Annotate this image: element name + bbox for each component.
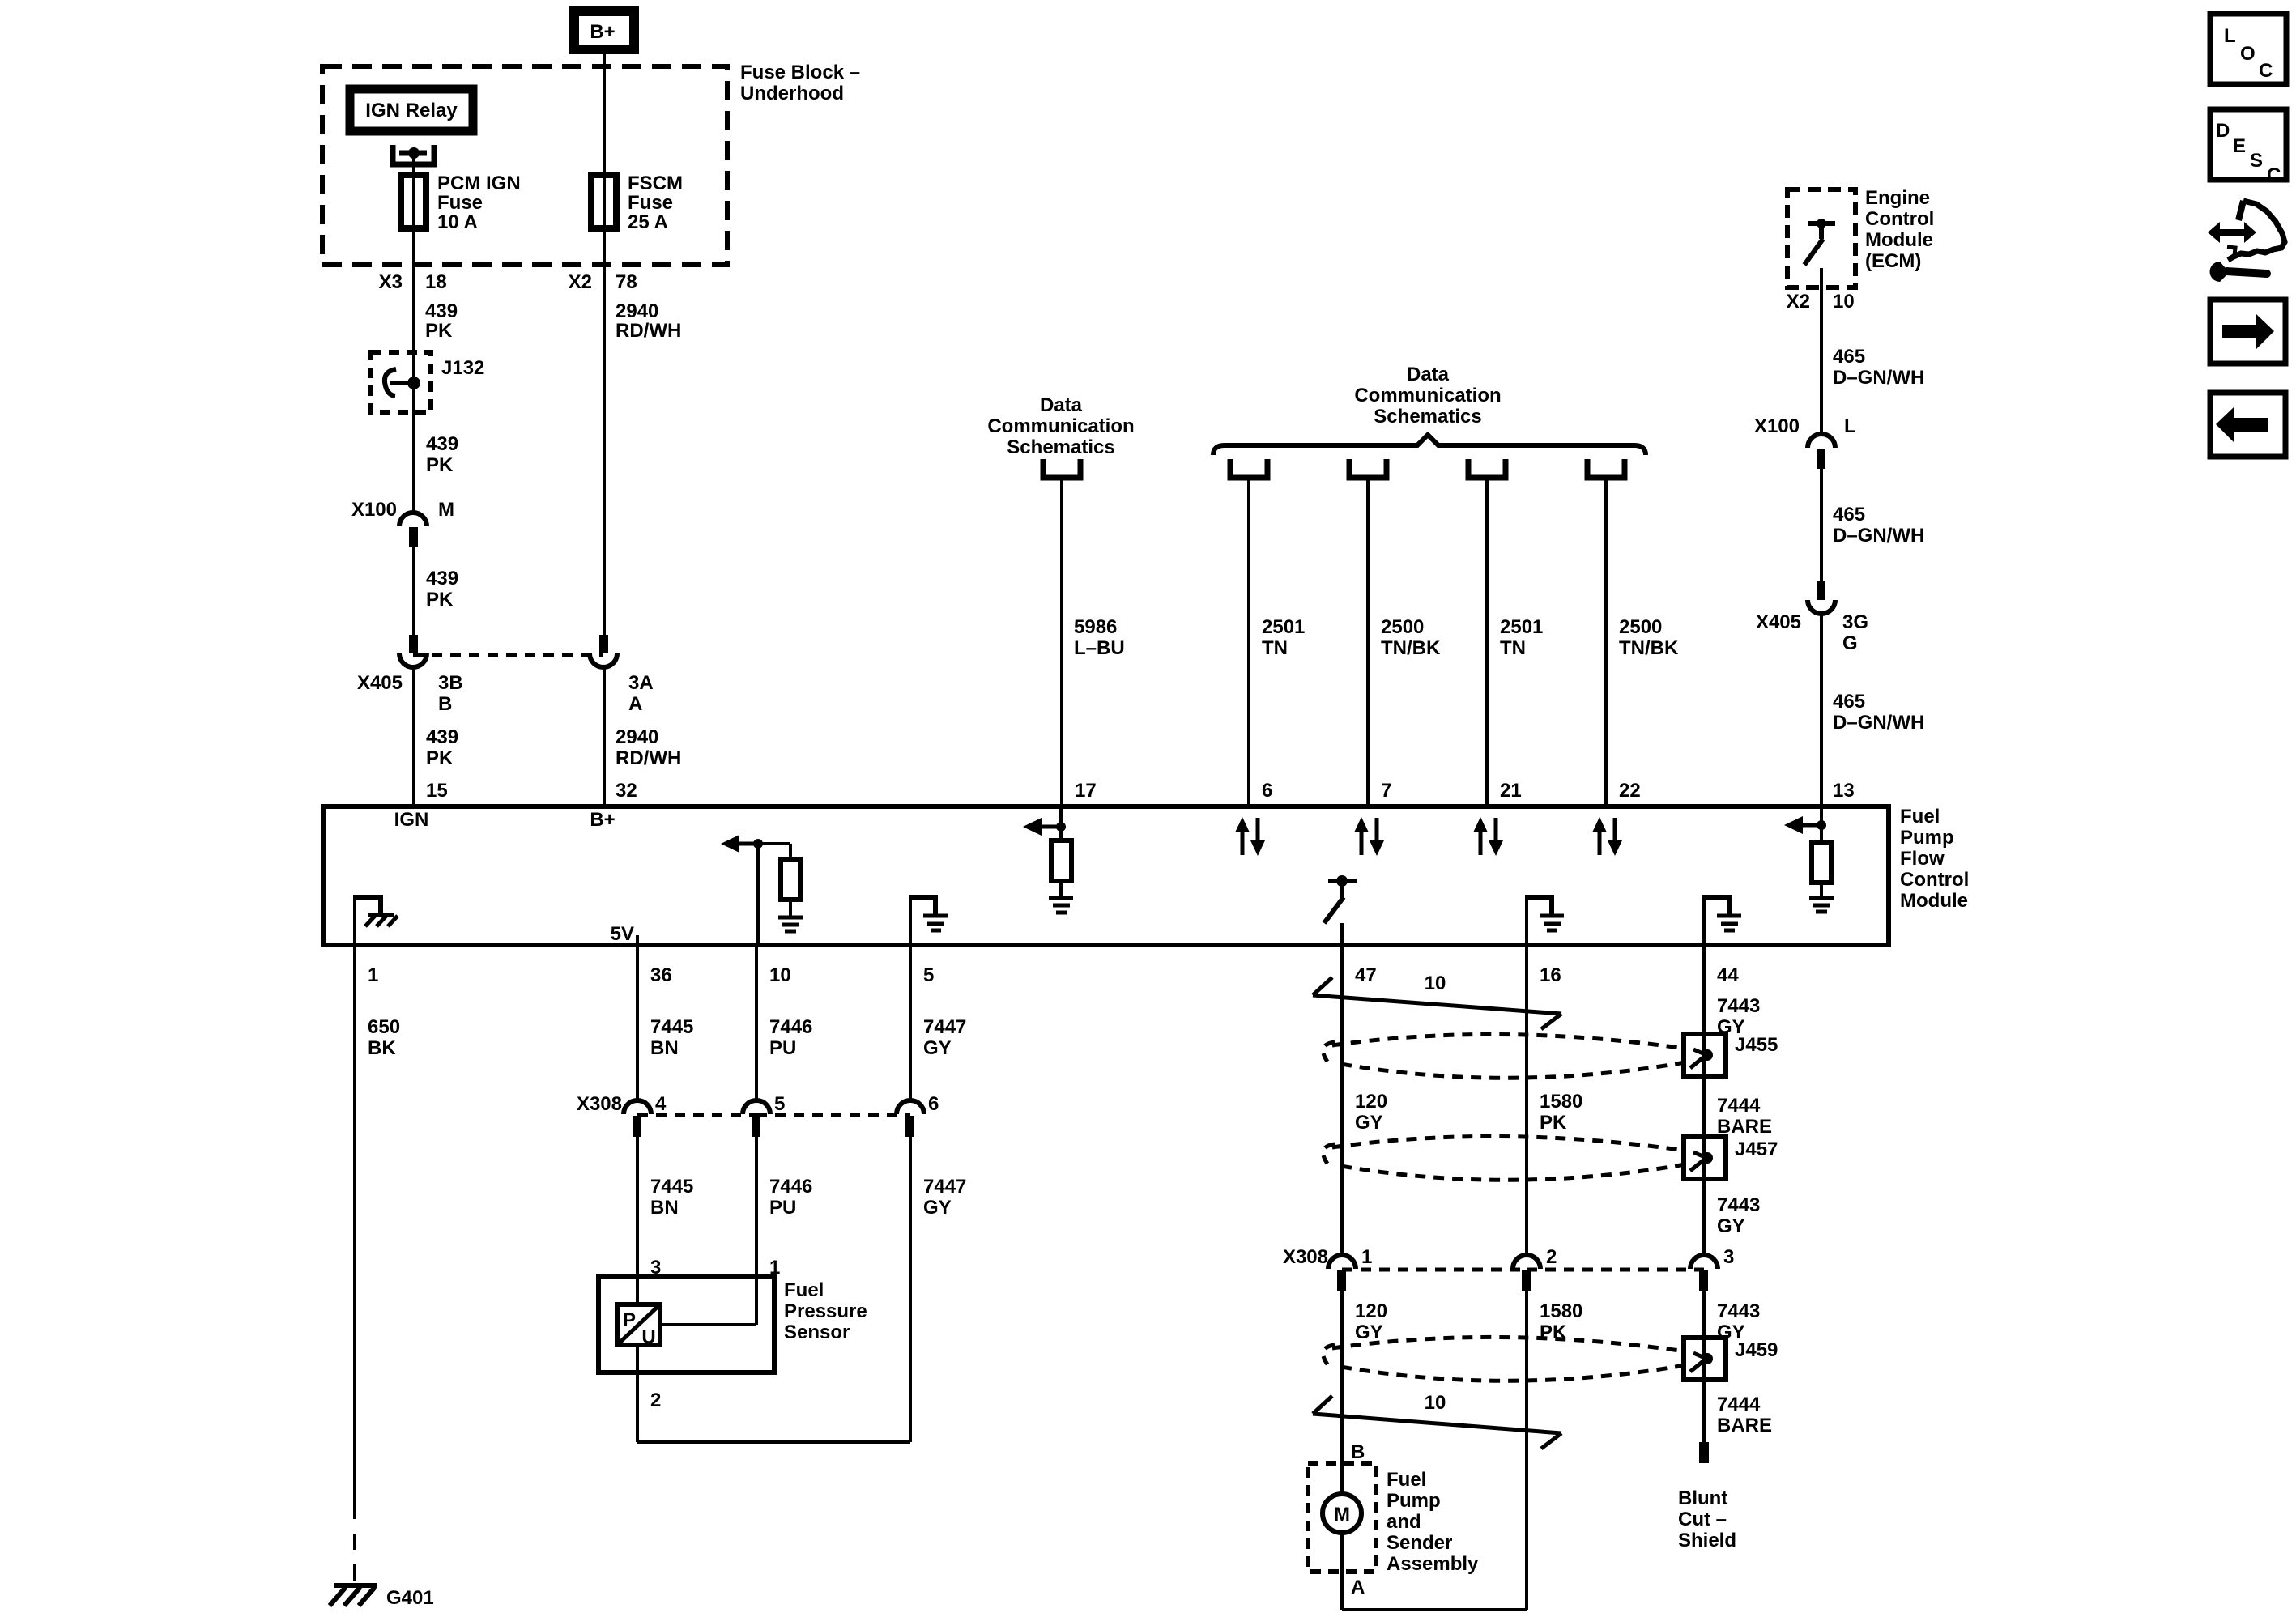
dashed jumper X308 4-5 (637, 1113, 756, 1117)
fuse PCM IGN 10A (401, 172, 521, 233)
dashed jumper X308 5-6 (756, 1113, 910, 1117)
svg-text:Fuse: Fuse (437, 192, 483, 214)
wire label 7443 GY (B) (1717, 1194, 1760, 1237)
wire label 5986 L-BU (1074, 616, 1125, 659)
label Data Communication Schematics (right) (1354, 364, 1501, 428)
wire label 7445 BN (1) (650, 1016, 693, 1059)
wire label 7447 GY (1) (923, 1016, 966, 1059)
brace over data wires (1213, 435, 1646, 455)
svg-text:Fuse: Fuse (628, 192, 673, 214)
wire label 2501 TN (1262, 616, 1305, 659)
svg-text:J132: J132 (441, 357, 484, 379)
chassis ground pin 1 internal (353, 895, 398, 945)
wire pin 10 to X308 (755, 945, 758, 1100)
wire X405 to pin 13 (1820, 614, 1823, 806)
svg-text:1580: 1580 (1540, 1091, 1582, 1113)
svg-text:BARE: BARE (1717, 1116, 1772, 1138)
svg-text:7445: 7445 (650, 1016, 693, 1038)
svg-text:7445: 7445 (650, 1176, 693, 1198)
wire serial data to pin 7 (1366, 478, 1370, 806)
module Fuel Pump Flow Control Module box (323, 806, 1889, 945)
svg-text:3: 3 (1723, 1246, 1734, 1268)
shield loop 2 (1323, 1136, 1685, 1180)
off-page connector symbol (pin 7 net) (1349, 459, 1387, 478)
svg-text:Flow: Flow (1900, 848, 1945, 870)
svg-text:IGN Relay: IGN Relay (365, 100, 458, 121)
wire label 2940 RD/WH (1) (616, 300, 681, 342)
node pin 10 junction with arrow (721, 835, 763, 853)
svg-text:465: 465 (1833, 691, 1865, 713)
ground pin 44 internal (1702, 895, 1741, 945)
svg-text:10: 10 (1425, 972, 1446, 994)
pin label X3 18 (379, 271, 447, 293)
svg-text:Data: Data (1040, 394, 1083, 416)
wire label 7443 GY (A) (1717, 995, 1760, 1038)
svg-text:Cut –: Cut – (1678, 1508, 1727, 1530)
svg-text:BN: BN (650, 1037, 679, 1059)
svg-text:GY: GY (1717, 1215, 1745, 1237)
wire serial data to pin 21 (1485, 478, 1489, 806)
transducer P/U element (617, 1304, 660, 1348)
svg-text:O: O (2240, 43, 2256, 65)
wire pin44 to J459 (1702, 1291, 1706, 1380)
svg-text:3G: 3G (1842, 611, 1868, 633)
svg-text:X3: X3 (379, 271, 403, 293)
splice J455 (1684, 1034, 1778, 1076)
label Fuel Pump and Sender Assembly (1387, 1469, 1479, 1575)
label Engine Control Module (ECM) (1865, 187, 1934, 272)
svg-text:X405: X405 (1756, 611, 1801, 633)
svg-text:Control: Control (1900, 869, 1969, 891)
svg-text:44: 44 (1717, 964, 1739, 986)
svg-text:650: 650 (368, 1016, 400, 1038)
wire label 1580 PK (1) (1540, 1091, 1582, 1134)
wire X308-1 to fuel pump B (1340, 1291, 1344, 1494)
node pin 17 junction with arrow (1023, 818, 1066, 836)
wire label 439 PK (1) (425, 300, 458, 342)
off-page connector symbol (pin 6 net) (1230, 459, 1267, 478)
svg-text:E: E (2233, 135, 2246, 157)
svg-text:PK: PK (426, 454, 454, 476)
connector X100 L (right) (1754, 415, 1856, 469)
svg-text:C: C (2259, 60, 2273, 82)
svg-text:7446: 7446 (769, 1016, 812, 1038)
wire X100 to X405 (right) (1820, 469, 1823, 581)
wire sensor pin 2 return (637, 1345, 910, 1442)
wire label 7444 BARE (2) (1717, 1394, 1772, 1436)
icon vehicle data arrows and wrench (2208, 201, 2285, 282)
pin label X2 10 (1787, 291, 1855, 313)
wire label 465 D-GN/WH (1) (1833, 346, 1924, 389)
svg-text:PK: PK (1540, 1112, 1567, 1134)
off-page connector symbol (pin 17 net) (1043, 459, 1080, 478)
svg-text:7443: 7443 (1717, 1300, 1760, 1322)
serial data bidirectional arrows pin 7 (1354, 817, 1384, 856)
wire pin 36 stub (636, 935, 639, 945)
off-page connector symbol (pin 22 net) (1587, 459, 1625, 478)
wire pin 16 to X308 (1525, 945, 1528, 1255)
svg-text:Communication: Communication (987, 415, 1134, 437)
wire relay to PCM IGN fuse and down to X100 (412, 153, 415, 512)
svg-text:X100: X100 (351, 499, 397, 521)
svg-text:PK: PK (426, 589, 454, 611)
wire X405 to pin 32 (603, 667, 606, 806)
svg-text:18: 18 (425, 271, 447, 293)
svg-text:2940: 2940 (616, 726, 658, 748)
svg-text:TN/BK: TN/BK (1381, 637, 1441, 659)
svg-text:439: 439 (426, 568, 458, 589)
icon LOC box (2210, 14, 2286, 84)
splice J457 (1684, 1137, 1778, 1179)
svg-text:10: 10 (769, 964, 791, 986)
svg-text:Data: Data (1407, 364, 1450, 385)
wire label 120 GY (2) (1355, 1300, 1387, 1343)
wire serial data to pin 22 (1604, 478, 1608, 806)
wire label 7445 BN (2) (650, 1176, 693, 1219)
svg-text:U: U (641, 1326, 655, 1348)
svg-text:Communication: Communication (1354, 385, 1501, 406)
svg-text:and: and (1387, 1511, 1421, 1533)
connector X308 pin 1 (1328, 1246, 1372, 1291)
svg-text:2501: 2501 (1262, 616, 1305, 638)
svg-text:1: 1 (1361, 1246, 1372, 1268)
svg-text:465: 465 (1833, 504, 1865, 526)
wire serial data to pin 6 (1247, 478, 1250, 806)
wire pin 36 to X308 (636, 945, 639, 1100)
svg-text:17: 17 (1075, 780, 1097, 802)
svg-text:S: S (2250, 150, 2263, 172)
svg-text:PK: PK (426, 747, 454, 769)
harness arrow 10 wires (top) (1313, 972, 1561, 1029)
wire label 465 D-GN/WH (2) (1833, 504, 1924, 547)
switch pin 47 internal (1324, 875, 1357, 945)
icon DESC box (2210, 109, 2286, 186)
svg-text:PK: PK (425, 320, 453, 342)
power node B+ (574, 11, 634, 49)
svg-text:2940: 2940 (616, 300, 658, 322)
svg-text:GY: GY (1355, 1321, 1383, 1343)
wire label 7444 BARE (1) (1717, 1095, 1772, 1138)
svg-text:IGN: IGN (394, 809, 429, 831)
svg-text:120: 120 (1355, 1300, 1387, 1322)
svg-text:GY: GY (923, 1037, 952, 1059)
icon forward arrow box (2210, 300, 2285, 364)
svg-text:Underhood: Underhood (740, 83, 844, 104)
svg-text:13: 13 (1833, 780, 1855, 802)
wire label 7446 PU (2) (769, 1176, 812, 1219)
svg-text:36: 36 (650, 964, 672, 986)
wire label 2940 RD/WH (2) (616, 726, 681, 769)
svg-text:BK: BK (368, 1037, 396, 1059)
wire X308-6 to sensor return (909, 1137, 912, 1442)
svg-text:7447: 7447 (923, 1176, 966, 1198)
svg-text:2500: 2500 (1619, 616, 1662, 638)
svg-text:D: D (2216, 120, 2230, 142)
svg-text:J459: J459 (1735, 1339, 1778, 1361)
connector X405 3G G (right) (1756, 581, 1868, 654)
label Fuel Pump Flow Control Module (1900, 806, 1969, 912)
svg-text:BARE: BARE (1717, 1415, 1772, 1436)
wire shield to blunt cut (1702, 1380, 1706, 1442)
svg-text:Engine: Engine (1865, 187, 1930, 209)
dashed jumper X308 1-2 (1342, 1268, 1527, 1272)
off-page connector symbol (pin 21 net) (1468, 459, 1506, 478)
wire label 1580 PK (2) (1540, 1300, 1582, 1343)
svg-text:D–GN/WH: D–GN/WH (1833, 712, 1924, 734)
svg-text:7: 7 (1381, 780, 1391, 802)
wire label 439 PK (4) (426, 726, 458, 769)
svg-text:X405: X405 (357, 672, 403, 694)
wire label 120 GY (1) (1355, 1091, 1387, 1134)
svg-text:GY: GY (1355, 1112, 1383, 1134)
label Data Communication Schematics (left) (987, 394, 1134, 458)
svg-text:P: P (623, 1309, 636, 1331)
svg-text:10: 10 (1425, 1392, 1446, 1414)
wire fuel pump A to pin 16 (1342, 1291, 1527, 1610)
svg-text:Control: Control (1865, 208, 1934, 230)
svg-text:G: G (1842, 632, 1858, 654)
svg-text:32: 32 (616, 780, 637, 802)
svg-text:B+: B+ (590, 809, 615, 831)
svg-text:3B: 3B (438, 672, 463, 694)
connector X308 pin 4 (624, 1093, 667, 1137)
connector X100 M (left) (351, 499, 454, 547)
serial data bidirectional arrows pin 6 (1235, 817, 1265, 856)
connector X405 3A A (right) (590, 635, 654, 715)
connector X308 pin 6 (897, 1093, 939, 1137)
svg-text:PCM IGN: PCM IGN (437, 172, 521, 194)
svg-text:15: 15 (426, 780, 448, 802)
svg-text:439: 439 (426, 726, 458, 748)
svg-text:Schematics: Schematics (1374, 406, 1481, 428)
resistor pin 17 termination (1051, 806, 1071, 898)
svg-text:Schematics: Schematics (1007, 436, 1114, 458)
splice J132 (371, 352, 484, 412)
svg-text:PU: PU (769, 1037, 796, 1059)
svg-text:Sender: Sender (1387, 1532, 1452, 1554)
connector X308 pin 2 (1513, 1246, 1557, 1291)
ground G401 (330, 1585, 434, 1609)
serial data bidirectional arrows pin 21 (1473, 817, 1503, 856)
dashed jumper X405 (413, 653, 603, 657)
svg-text:Sensor: Sensor (784, 1321, 850, 1343)
svg-text:TN: TN (1500, 637, 1526, 659)
ground pin 17 (1049, 898, 1073, 913)
fuse FSCM 25A (591, 172, 683, 233)
svg-text:B: B (438, 693, 452, 715)
ECM dashed box (1787, 189, 1855, 287)
wire pin 10 to box edge (756, 844, 760, 945)
svg-text:J455: J455 (1735, 1034, 1778, 1056)
svg-text:Module: Module (1865, 229, 1933, 251)
svg-text:X2: X2 (569, 271, 592, 293)
svg-text:Pump: Pump (1387, 1490, 1441, 1512)
svg-text:X308: X308 (1283, 1246, 1328, 1268)
svg-text:TN/BK: TN/BK (1619, 637, 1679, 659)
wire label 7443 GY (C) (1717, 1300, 1760, 1343)
wire pin 1 to G401 (353, 945, 356, 1504)
svg-text:L–BU: L–BU (1074, 637, 1125, 659)
fuse block underhood dashed box (322, 66, 727, 265)
svg-text:GY: GY (923, 1197, 952, 1219)
svg-text:5V: 5V (611, 923, 634, 945)
wire label 439 PK (2) (426, 433, 458, 476)
svg-text:5: 5 (774, 1093, 785, 1115)
wire label 650 BK (368, 1016, 400, 1059)
label Blunt Cut Shield (1678, 1487, 1736, 1551)
svg-text:7443: 7443 (1717, 1194, 1760, 1216)
svg-text:47: 47 (1355, 964, 1377, 986)
ground pin 5 internal (909, 895, 948, 945)
node pin 13 junction with arrow (1784, 816, 1826, 834)
svg-text:3A: 3A (628, 672, 654, 694)
wire label 2500 TN/BK (1381, 616, 1441, 659)
wire label 2501 TN (1500, 616, 1543, 659)
wire X308-4 to sensor pin 3 (636, 1137, 639, 1304)
connector X405 3B B (left) (357, 635, 463, 715)
wire label 439 PK (3) (426, 568, 458, 611)
svg-text:B: B (1351, 1441, 1365, 1463)
wire serial data to pin 17 (1060, 478, 1063, 806)
svg-text:Pump: Pump (1900, 827, 1954, 849)
wire label 7447 GY (2) (923, 1176, 966, 1219)
svg-text:L: L (2224, 25, 2236, 47)
label Fuse Block Underhood (740, 62, 860, 104)
svg-text:21: 21 (1500, 780, 1522, 802)
connector X308 pin 5 (743, 1093, 785, 1137)
wire pin 5 to X308 (909, 945, 912, 1100)
svg-text:Fuel: Fuel (1900, 806, 1940, 828)
harness arrow 10 wires (bottom) (1313, 1392, 1561, 1449)
svg-text:4: 4 (655, 1093, 667, 1115)
wire X100 to X405 (left) (412, 547, 415, 635)
svg-text:A: A (628, 693, 642, 715)
svg-text:Shield: Shield (1678, 1530, 1736, 1551)
wire X308-5 to sensor pin 1 (660, 1137, 756, 1325)
wire label 2500 TN/BK (1619, 616, 1679, 659)
resistor pin 10 pull (758, 844, 800, 917)
svg-text:(ECM): (ECM) (1865, 250, 1921, 272)
svg-text:465: 465 (1833, 346, 1865, 368)
wire X405 to pin 15 (412, 667, 415, 806)
shield loop 3 (1323, 1337, 1685, 1381)
svg-text:M: M (1334, 1504, 1350, 1526)
svg-text:7444: 7444 (1717, 1394, 1761, 1415)
splice J459 (1684, 1338, 1778, 1380)
wire label 7446 PU (1) (769, 1016, 812, 1059)
svg-text:2501: 2501 (1500, 616, 1543, 638)
svg-text:7446: 7446 (769, 1176, 812, 1198)
svg-text:X308: X308 (577, 1093, 622, 1115)
svg-text:RD/WH: RD/WH (616, 747, 681, 769)
svg-text:7447: 7447 (923, 1016, 966, 1038)
shield loop 1 (1323, 1034, 1685, 1078)
svg-text:78: 78 (616, 271, 637, 293)
svg-text:G401: G401 (386, 1587, 434, 1609)
pin label X2 78 (569, 271, 637, 293)
svg-text:1: 1 (368, 964, 378, 986)
wire pin 47 to X308 (1340, 945, 1344, 1255)
connector X308 pin 3 (1690, 1246, 1734, 1291)
svg-text:A: A (1351, 1577, 1365, 1598)
svg-text:25 A: 25 A (628, 211, 668, 233)
svg-text:D–GN/WH: D–GN/WH (1833, 367, 1924, 389)
svg-text:L: L (1844, 415, 1856, 437)
svg-text:Fuel: Fuel (1387, 1469, 1426, 1491)
svg-text:PU: PU (769, 1197, 796, 1219)
wire B+ to FSCM fuse (603, 54, 606, 635)
svg-text:Module: Module (1900, 890, 1968, 912)
svg-text:Fuel: Fuel (784, 1279, 824, 1301)
resistor pin 13 termination (1812, 806, 1831, 898)
svg-text:120: 120 (1355, 1091, 1387, 1113)
svg-text:439: 439 (426, 433, 458, 455)
relay contact symbol (393, 145, 434, 164)
svg-text:10: 10 (1833, 291, 1855, 313)
svg-text:X2: X2 (1787, 291, 1810, 313)
ECM internal switch (1804, 219, 1835, 265)
svg-text:Assembly: Assembly (1387, 1553, 1479, 1575)
svg-text:BN: BN (650, 1197, 679, 1219)
svg-text:RD/WH: RD/WH (616, 320, 681, 342)
wire ECM to X100 (1820, 268, 1823, 433)
svg-text:22: 22 (1619, 780, 1641, 802)
serial data bidirectional arrows pin 22 (1592, 817, 1622, 856)
svg-text:M: M (438, 499, 454, 521)
blunt cut shield end (1699, 1442, 1709, 1463)
svg-text:Fuse Block –: Fuse Block – (740, 62, 860, 83)
svg-text:5: 5 (923, 964, 934, 986)
icon back arrow box (2210, 393, 2285, 457)
wire pin 44 shield segments (1702, 945, 1706, 1255)
svg-text:Pressure: Pressure (784, 1300, 867, 1322)
svg-text:2: 2 (1546, 1246, 1557, 1268)
svg-text:1580: 1580 (1540, 1300, 1582, 1322)
sensor Fuel Pressure Sensor box (598, 1277, 867, 1372)
svg-text:7444: 7444 (1717, 1095, 1761, 1117)
svg-text:10 A: 10 A (437, 211, 478, 233)
svg-text:C: C (2267, 164, 2281, 186)
svg-text:J457: J457 (1735, 1138, 1778, 1160)
svg-text:Blunt: Blunt (1678, 1487, 1727, 1509)
ground pin 13 (1809, 898, 1834, 912)
svg-text:16: 16 (1540, 964, 1561, 986)
svg-text:D–GN/WH: D–GN/WH (1833, 525, 1924, 547)
svg-text:2500: 2500 (1381, 616, 1424, 638)
svg-text:B+: B+ (590, 21, 615, 43)
motor fuel pump (1308, 1463, 1376, 1572)
svg-text:FSCM: FSCM (628, 172, 683, 194)
ground pin 10 resistor (778, 917, 803, 931)
dashed jumper X308 2-3 (1527, 1268, 1704, 1272)
svg-text:TN: TN (1262, 637, 1288, 659)
svg-text:5986: 5986 (1074, 616, 1117, 638)
relay IGN Relay (350, 89, 473, 131)
svg-text:6: 6 (928, 1093, 939, 1115)
svg-text:X100: X100 (1754, 415, 1800, 437)
ground pin 16 internal (1525, 895, 1564, 945)
svg-text:439: 439 (425, 300, 458, 322)
svg-text:6: 6 (1262, 780, 1272, 802)
wire label 465 D-GN/WH (3) (1833, 691, 1924, 734)
svg-text:7443: 7443 (1717, 995, 1760, 1017)
svg-text:2: 2 (650, 1389, 661, 1411)
